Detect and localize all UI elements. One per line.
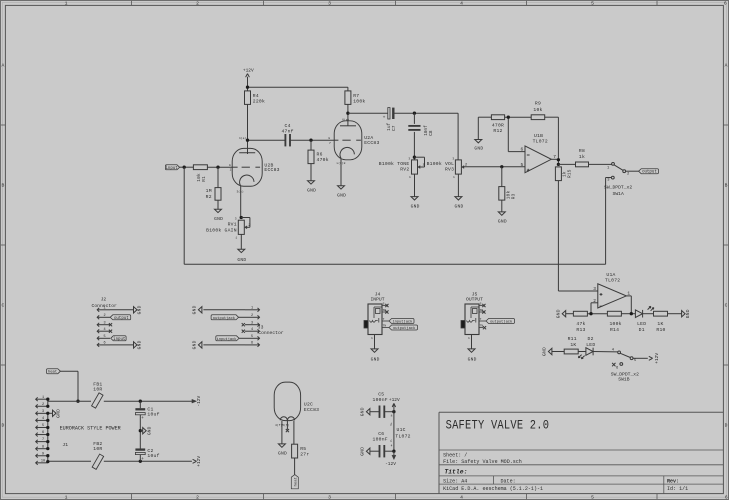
svg-text:J5: J5: [472, 292, 478, 298]
wire U2B plate node to C4: [248, 140, 286, 154]
svg-text:outputjack: outputjack: [393, 326, 416, 331]
svg-text:1K: 1K: [570, 342, 576, 348]
svg-text:47nf: 47nf: [281, 128, 293, 134]
svg-text:6: 6: [724, 1, 727, 7]
ground left of R11: [548, 348, 552, 354]
svg-text:GND: GND: [360, 407, 366, 416]
wire R12 left to ground: [478, 117, 491, 139]
wire R10 to right ground: [668, 313, 682, 315]
svg-text:C8: C8: [429, 130, 434, 136]
svg-text:ECC83: ECC83: [264, 167, 279, 173]
connector J2: [92, 296, 118, 347]
svg-text:D2: D2: [588, 336, 594, 342]
wire gnd to C6: [370, 450, 379, 452]
resistor R3: [499, 187, 505, 201]
svg-text:FB2: FB2: [93, 441, 102, 447]
resistor R9: [531, 115, 545, 120]
svg-text:U1A: U1A: [606, 272, 615, 278]
svg-text:R2: R2: [206, 194, 212, 200]
svg-text:4: 4: [460, 495, 463, 500]
svg-text:B100k VOL: B100k VOL: [427, 161, 455, 167]
svg-text:R14: R14: [610, 327, 619, 333]
title block frame: [439, 412, 723, 493]
svg-text:GND: GND: [148, 426, 153, 435]
svg-text:GND: GND: [192, 305, 198, 314]
wire C5 to +12V node: [384, 411, 394, 413]
svg-text:2: 2: [103, 314, 105, 318]
svg-text:Size: A4: Size: A4: [443, 478, 467, 484]
svg-text:2: 2: [42, 403, 44, 407]
svg-text:SW_DPDT_x2: SW_DPDT_x2: [604, 184, 632, 190]
ground left of C6: [366, 448, 370, 454]
potentiometer RV3: [455, 160, 464, 174]
capacitor C6 (100nF): [373, 431, 388, 457]
junction J1 ground bus: [46, 447, 49, 450]
potentiometer RV1: [238, 220, 247, 234]
wire R1 to U2B grid: [207, 166, 232, 168]
junction J1 pin9: [46, 454, 49, 457]
junction C2 bottom: [139, 460, 142, 463]
frame zone ticks left: [1, 124, 6, 126]
svg-text:3(k): 3(k): [237, 189, 244, 193]
junction J1 pin10: [46, 460, 49, 463]
resistor R6: [308, 150, 314, 164]
wire J1 pins 1-2 bus to -12V rail: [48, 399, 192, 406]
wire J1 pins 3-8 ground bus: [48, 413, 53, 448]
svg-text:1: 1: [468, 337, 470, 340]
ground left of R13: [562, 311, 566, 317]
svg-text:6: 6: [725, 495, 728, 500]
svg-text:SW_DPDT_x2: SW_DPDT_x2: [611, 371, 639, 377]
junction R3 tap: [500, 165, 503, 168]
svg-text:heat: heat: [48, 370, 57, 375]
svg-text:3: 3: [103, 321, 105, 325]
svg-text:R9: R9: [535, 101, 541, 107]
resistor R1: [193, 165, 207, 170]
svg-text:KiCad E.D.A. eeschema (5.1.2-: KiCad E.D.A. eeschema (5.1.2-1)-1: [443, 486, 543, 492]
wire D2 to SW1B: [593, 351, 618, 353]
global label input at J2: [111, 336, 126, 341]
ground right at J2 pin1: [134, 307, 138, 313]
svg-text:Date:: Date:: [501, 478, 516, 484]
wire bypass net input to SW1A pin3: [184, 167, 611, 264]
ground below R12: [475, 140, 482, 143]
svg-text:B100k TONE: B100k TONE: [379, 161, 410, 167]
svg-text:B100k GAIN: B100k GAIN: [206, 227, 237, 233]
wire C8 to RV2: [413, 132, 415, 160]
svg-text:D1: D1: [639, 327, 645, 333]
svg-text:RV1: RV1: [228, 222, 237, 228]
resistor R15: [555, 167, 561, 181]
svg-text:GND: GND: [278, 451, 287, 457]
global label outputjack at J5: [486, 319, 515, 324]
no-connect J5 pin S: [482, 304, 485, 307]
title block text: sheet name: [446, 418, 550, 434]
ground right of R10: [682, 311, 686, 317]
svg-text:J4: J4: [375, 292, 381, 298]
ground below RV1: [238, 249, 245, 252]
ground below U2C pin4: [278, 444, 285, 447]
ground right at J2 pin6: [134, 342, 138, 348]
svg-text:R7: R7: [353, 93, 359, 99]
svg-text:S: S: [383, 303, 385, 306]
svg-text:100nF: 100nF: [373, 397, 388, 403]
svg-text:U1B: U1B: [534, 133, 543, 139]
svg-text:7: 7: [329, 142, 331, 145]
svg-text:G: G: [328, 137, 330, 140]
switch SW1A (SPDT): [604, 163, 632, 197]
svg-text:output: output: [642, 171, 657, 175]
svg-text:4: 4: [103, 328, 105, 332]
junction J1 pin1: [46, 398, 49, 401]
resistor R13: [573, 311, 587, 316]
svg-text:LED: LED: [637, 321, 646, 327]
wire R12 to R9 and U1B pin6: [505, 117, 532, 151]
svg-text:GND: GND: [192, 340, 198, 349]
svg-text:2: 2: [251, 314, 253, 318]
capacitor C5 (100nF): [373, 392, 388, 418]
wire C1 to C2: [139, 415, 141, 449]
connector J3: [245, 306, 284, 346]
wire J3 pin2 stub: [239, 316, 245, 318]
svg-text:R10: R10: [656, 327, 665, 333]
wire +12V rail to R4 and R7: [248, 87, 348, 91]
svg-text:V-: V-: [390, 438, 393, 442]
svg-text:1k: 1k: [579, 154, 585, 160]
global label output at J2: [110, 315, 131, 320]
no-connect J2 pin3: [109, 323, 112, 326]
svg-text:3: 3: [408, 157, 410, 160]
svg-text:R3: R3: [511, 193, 516, 199]
svg-text:1: 1: [251, 306, 253, 310]
svg-text:LED: LED: [586, 342, 595, 348]
RV2 wiper loop to top: [414, 157, 424, 167]
svg-text:1: 1: [235, 236, 237, 239]
svg-text:G: G: [229, 164, 231, 167]
svg-text:GND: GND: [237, 257, 246, 263]
svg-text:GND: GND: [214, 216, 223, 222]
power symbol -12V: [192, 396, 202, 407]
ground right at J1 pin3: [53, 410, 57, 416]
wire R7 to U2A plate node: [347, 104, 349, 113]
svg-text:+: +: [141, 416, 144, 421]
no-connect J5 pin TN: [483, 326, 486, 329]
svg-text:ECC83: ECC83: [304, 407, 319, 413]
svg-text:GND: GND: [542, 347, 548, 356]
svg-text:C5: C5: [378, 392, 384, 398]
svg-text:4: 4: [460, 1, 463, 7]
svg-text:47k: 47k: [576, 321, 585, 327]
no-connect J3 pin4: [242, 330, 245, 333]
svg-text:3: 3: [593, 286, 596, 292]
RV1 wiper loop to top: [241, 218, 250, 228]
junction U1A output node: [630, 312, 633, 315]
svg-text:27r: 27r: [300, 451, 309, 457]
wire U2A cathode to ground: [340, 158, 342, 185]
wire gnd to C5: [370, 411, 379, 413]
power symbol +12V at U1C: [389, 397, 400, 412]
global label inputjack at J3: [216, 336, 239, 341]
svg-text:+12V: +12V: [243, 68, 254, 74]
junction heat tap on -12V rail: [76, 400, 79, 403]
svg-text:10R: 10R: [93, 387, 102, 393]
op-amp U1A (TL072): [593, 272, 626, 308]
svg-text:GND: GND: [137, 340, 143, 349]
svg-text:R12: R12: [493, 128, 502, 134]
wire R3 top: [501, 167, 503, 187]
svg-text:S: S: [480, 303, 482, 306]
frame zone ticks bottom: [131, 494, 133, 500]
wire U1A pin2 feedback: [591, 303, 598, 314]
svg-text:1K: 1K: [657, 321, 663, 327]
svg-text:Rev:: Rev:: [667, 479, 679, 485]
ferrite bead FB2: [92, 441, 103, 470]
ground left at J3 pin6: [198, 342, 202, 348]
junction J1 pin2: [46, 405, 49, 408]
resistor R10: [654, 311, 668, 316]
ground below R2: [215, 209, 222, 212]
svg-text:2: 2: [196, 1, 199, 7]
junction input node: [183, 166, 186, 169]
ground below J5: [468, 349, 475, 352]
svg-text:6: 6: [103, 342, 105, 346]
svg-text:220k: 220k: [253, 99, 265, 105]
svg-text:1: 1: [627, 291, 630, 297]
wire input label to R1: [180, 166, 194, 168]
svg-text:RV2: RV2: [400, 167, 409, 173]
junction RV1 top: [240, 216, 243, 219]
wire U1B output: [551, 158, 558, 160]
power symbol -12V at U1C: [385, 451, 396, 467]
svg-text:C1: C1: [147, 407, 153, 413]
junction U1B output: [557, 158, 560, 161]
ferrite bead FB1: [92, 381, 103, 408]
svg-text:1(a): 1(a): [239, 136, 246, 140]
wire SW1B to +12V: [633, 357, 648, 359]
svg-text:outputjack: outputjack: [213, 316, 236, 321]
wire C4 to U2A grid node: [290, 139, 334, 141]
wire J2 pin2 to output label: [109, 316, 111, 318]
junction J1 ground bus: [46, 426, 49, 429]
frame zone ticks right: [723, 124, 728, 126]
junction R2 tap: [216, 166, 219, 169]
junction J1 ground bus: [46, 419, 49, 422]
wire RV2 to ground: [414, 174, 416, 197]
svg-text:V+: V+: [390, 422, 393, 426]
wire J3 pin6 to ground: [203, 344, 245, 346]
wire gnd to R11: [552, 351, 564, 353]
svg-text:T: T: [383, 318, 385, 321]
svg-text:9: 9: [42, 452, 44, 456]
svg-text:File: Safety Valve MOD.sch: File: Safety Valve MOD.sch: [443, 459, 522, 465]
svg-text:GND: GND: [468, 357, 477, 363]
wire RV1 to ground: [240, 234, 242, 249]
junction U2B plate node: [246, 139, 249, 142]
svg-text:6: 6: [520, 147, 523, 153]
wire J1 pins 9-10 bus to +12V rail: [48, 456, 192, 463]
svg-text:100k: 100k: [609, 321, 621, 327]
triode U2B (ECC83): [232, 148, 280, 186]
capacitor C7 (1uf polarized): [383, 108, 398, 131]
svg-text:GND: GND: [556, 309, 562, 318]
junction U1A- node: [589, 312, 592, 315]
global label outputjack at J4: [389, 325, 418, 330]
ground left of C5: [366, 409, 370, 415]
wire D1 to R10: [643, 313, 654, 315]
svg-text:7: 7: [42, 438, 44, 442]
power symbol +12V at SW1B: [649, 353, 660, 364]
wire R3 to ground: [501, 200, 503, 212]
capacitor C2 (10uf polarized): [135, 448, 159, 462]
svg-text:C6: C6: [378, 431, 384, 437]
svg-text:outputjack: outputjack: [490, 319, 513, 324]
svg-text:RV3: RV3: [445, 167, 454, 173]
svg-text:C2: C2: [147, 448, 153, 454]
wire SW1A pin2 to output label: [626, 170, 639, 172]
svg-text:1M: 1M: [206, 188, 212, 194]
svg-text:SW1A: SW1A: [613, 191, 624, 197]
svg-text:1: 1: [409, 176, 411, 179]
connector J1 (Eurorack power): [36, 396, 69, 465]
svg-text:GND: GND: [137, 305, 143, 314]
svg-text:-12V: -12V: [196, 396, 202, 407]
svg-text:input: input: [165, 166, 178, 171]
svg-text:TL072: TL072: [395, 433, 410, 439]
wire J3 pin1 to ground: [203, 309, 245, 311]
svg-text:J2: J2: [101, 296, 107, 302]
svg-text:GND: GND: [498, 219, 507, 225]
global label input: [165, 165, 179, 170]
global label output: [639, 169, 659, 174]
svg-text:10k: 10k: [533, 107, 542, 113]
svg-text:3: 3: [328, 1, 331, 7]
resistor R2: [215, 188, 221, 201]
wire R9 to output node: [545, 117, 559, 164]
potentiometer RV2: [412, 160, 421, 174]
ground below J4: [371, 349, 378, 352]
svg-text:R15: R15: [567, 169, 572, 178]
svg-text:6: 6: [251, 342, 253, 346]
wire C6 to -12V node: [384, 450, 394, 452]
svg-text:D: D: [1, 423, 4, 429]
svg-text:6: 6: [42, 431, 44, 435]
svg-text:output: output: [114, 317, 129, 321]
svg-text:4: 4: [42, 417, 44, 421]
svg-text:U2C: U2C: [304, 402, 313, 408]
svg-text:A: A: [725, 63, 728, 69]
jack J4: [364, 292, 389, 349]
svg-text:FB1: FB1: [93, 381, 102, 387]
svg-text:heat: heat: [293, 477, 298, 486]
svg-text:8: 8: [391, 415, 393, 418]
svg-text:Connector: Connector: [258, 330, 284, 336]
resistor R5: [292, 444, 298, 458]
resistor R4: [245, 91, 251, 105]
svg-text:1: 1: [42, 396, 44, 400]
wire J3 pin5 stub: [239, 337, 245, 339]
svg-text:R1: R1: [202, 176, 207, 182]
svg-text:10uf: 10uf: [147, 412, 159, 418]
global label outputjack at J3: [211, 315, 239, 320]
wire gnd to R13: [566, 313, 574, 315]
svg-text:3: 3: [42, 410, 44, 414]
wire U1A output to R13/R14 node: [626, 296, 631, 314]
triode heater U2C (ECC83): [274, 382, 319, 421]
no-connect J2 pin4: [109, 330, 112, 333]
capacitor C8: [408, 125, 434, 136]
global label heat at power entry: [47, 369, 61, 374]
svg-text:-12V: -12V: [385, 461, 396, 467]
svg-text:+: +: [383, 116, 386, 121]
global label heat (vertical): [291, 475, 298, 489]
ground below U2A cathode: [338, 186, 345, 189]
svg-text:3: 3: [328, 495, 331, 500]
svg-text:5: 5: [520, 162, 523, 168]
svg-text:R5: R5: [300, 446, 306, 452]
svg-text:input: input: [113, 337, 126, 342]
svg-text:10R: 10R: [93, 446, 102, 452]
svg-text:10: 10: [41, 459, 45, 463]
svg-text:GND: GND: [411, 203, 420, 209]
junction feedback node: [507, 116, 510, 119]
svg-text:470k: 470k: [317, 157, 329, 163]
svg-text:1: 1: [453, 176, 455, 179]
wire grid node to R6: [310, 140, 312, 150]
svg-text:TN: TN: [383, 325, 387, 328]
junction J1 ground bus: [46, 433, 49, 436]
svg-text:C4: C4: [285, 123, 291, 129]
no-connect U2C pin 9: [286, 421, 289, 433]
svg-text:GND: GND: [454, 203, 463, 209]
junction J1 ground bus: [46, 412, 49, 415]
triode U2A (ECC83): [334, 121, 379, 160]
svg-text:R8: R8: [579, 148, 585, 154]
svg-text:Sheet: /: Sheet: /: [443, 453, 467, 459]
svg-text:J1: J1: [62, 442, 68, 448]
resistor R11: [564, 349, 578, 354]
svg-text:GND: GND: [56, 409, 62, 418]
svg-text:GND: GND: [360, 447, 366, 456]
svg-text:470R: 470R: [492, 123, 504, 129]
jack J5: [461, 292, 486, 349]
svg-text:+12V: +12V: [196, 456, 202, 467]
svg-text:GND: GND: [474, 146, 483, 152]
svg-text:5: 5: [251, 335, 253, 339]
svg-text:3: 3: [235, 218, 237, 221]
power symbol +12V at rail: [193, 456, 203, 467]
global label inputjack at J4: [389, 319, 414, 324]
svg-text:1: 1: [65, 495, 68, 500]
svg-text:100k: 100k: [353, 99, 365, 105]
switch SW1B (SPDT): [611, 348, 639, 382]
svg-text:GND: GND: [371, 357, 380, 363]
capacitor C1 (10uf polarized): [135, 401, 159, 421]
junction U2A grid node: [309, 139, 312, 142]
ground below R6: [308, 181, 315, 184]
svg-text:U1C: U1C: [397, 427, 406, 433]
svg-text:5: 5: [591, 1, 594, 7]
svg-text:R13: R13: [576, 327, 585, 333]
wire U2B cathode to RV1: [240, 186, 242, 218]
wire R11 to D2: [578, 351, 586, 353]
svg-text:5: 5: [591, 495, 594, 500]
wire U2A plate node to C7: [348, 112, 388, 114]
svg-text:SAFETY VALVE 2.0: SAFETY VALVE 2.0: [446, 418, 550, 434]
capacitor C4: [281, 123, 293, 146]
ground below R3: [498, 212, 505, 215]
svg-text:inputjack: inputjack: [217, 337, 238, 342]
wire R2 tap down: [217, 167, 219, 187]
